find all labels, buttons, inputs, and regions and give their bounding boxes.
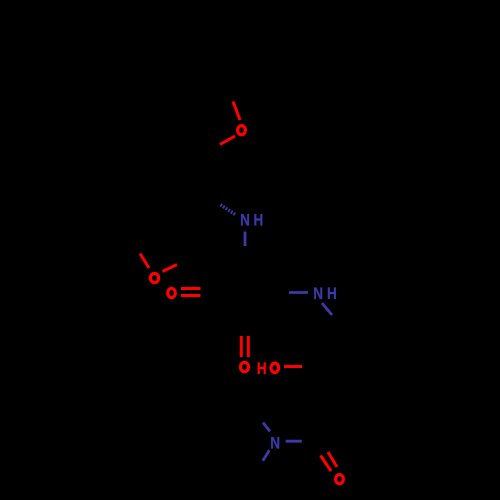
svg-text:H: H xyxy=(327,285,337,304)
svg-text:H: H xyxy=(257,360,267,379)
svg-text:N: N xyxy=(240,211,250,230)
svg-text:N: N xyxy=(313,285,323,304)
svg-text:N: N xyxy=(270,434,280,453)
svg-text:H: H xyxy=(253,211,263,230)
